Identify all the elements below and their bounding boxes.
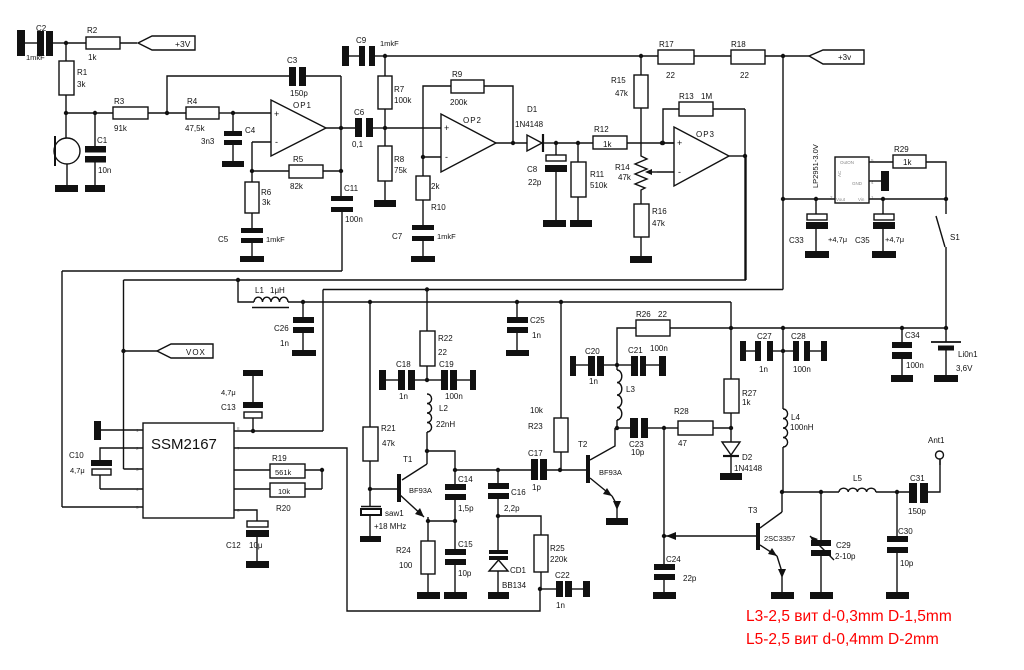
- wire to C3: [167, 76, 289, 113]
- capacitor C22 1n: [538, 571, 590, 610]
- svg-text:2-10p: 2-10p: [835, 552, 856, 561]
- coil winding note line 2: [746, 631, 939, 648]
- svg-text:L5: L5: [853, 474, 862, 483]
- svg-text:C14: C14: [458, 475, 473, 484]
- svg-text:1n: 1n: [399, 392, 408, 401]
- svg-text:T1: T1: [403, 455, 413, 464]
- svg-text:100n: 100n: [445, 392, 463, 401]
- varactor CD1 BB134: [488, 516, 527, 599]
- svg-text:L3-2,5 вит d-0,3mm D-1,5mm: L3-2,5 вит d-0,3mm D-1,5mm: [746, 608, 952, 625]
- inductor L3: [615, 365, 636, 430]
- svg-text:10μ: 10μ: [249, 541, 263, 550]
- capacitor C4 3n3: [201, 113, 256, 167]
- svg-text:22nH: 22nH: [436, 420, 455, 429]
- resistor R24 100: [396, 519, 440, 599]
- svg-text:47k: 47k: [652, 219, 666, 228]
- capacitor C9 1mkF: [342, 36, 399, 66]
- SSM pin4 wire: [100, 488, 143, 490]
- resistor R1 3k: [59, 43, 88, 113]
- svg-text:R23: R23: [528, 422, 543, 431]
- resistor R17 22: [641, 40, 731, 80]
- resistor R13 1M: [661, 92, 745, 145]
- svg-text:1n: 1n: [759, 365, 768, 374]
- svg-text:1mkF: 1mkF: [380, 39, 399, 48]
- wire oscillator output bus: [455, 469, 531, 471]
- capacitor C17 1p: [528, 449, 587, 492]
- svg-text:R17: R17: [659, 40, 674, 49]
- inductor L1 1uH: [238, 280, 731, 308]
- svg-text:R6: R6: [261, 188, 272, 197]
- resistor R23 10k: [528, 302, 568, 470]
- svg-text:C9: C9: [356, 36, 367, 45]
- svg-text:22: 22: [438, 348, 447, 357]
- wire VOX vertical: [123, 280, 125, 469]
- svg-text:VOX: VOX: [186, 348, 206, 357]
- svg-text:R5: R5: [293, 155, 304, 164]
- resistor R18 22: [731, 40, 809, 80]
- svg-text:22: 22: [658, 310, 667, 319]
- resistor R29 1k: [869, 145, 946, 199]
- resistor R19 561k: [234, 454, 324, 489]
- capacitor C24 22p: [653, 536, 697, 599]
- wire +3v vertical: [782, 56, 784, 290]
- svg-text:47k: 47k: [618, 173, 632, 182]
- capacitor C15 10p: [444, 521, 473, 599]
- svg-text:C4: C4: [245, 126, 256, 135]
- svg-text:2SC3357: 2SC3357: [764, 534, 795, 543]
- svg-text:510k: 510k: [590, 181, 608, 190]
- resistor R6 3k: [245, 171, 272, 228]
- svg-text:R10: R10: [431, 203, 446, 212]
- svg-text:R21: R21: [381, 424, 396, 433]
- svg-text:1,5p: 1,5p: [458, 504, 474, 513]
- capacitor C5 1mkF: [218, 228, 285, 262]
- resistor R28 47: [662, 407, 733, 448]
- svg-text:100n: 100n: [650, 344, 668, 353]
- svg-text:C10: C10: [69, 451, 84, 460]
- svg-text:R22: R22: [438, 334, 453, 343]
- svg-text:10k: 10k: [278, 487, 290, 496]
- switch S1: [936, 199, 960, 328]
- svg-text:22p: 22p: [528, 178, 542, 187]
- svg-text:C30: C30: [898, 527, 913, 536]
- svg-text:R24: R24: [396, 546, 411, 555]
- svg-text:OP2: OP2: [463, 116, 482, 125]
- svg-text:R9: R9: [452, 70, 463, 79]
- svg-text:R16: R16: [652, 207, 667, 216]
- resistor R20 10k: [234, 483, 322, 513]
- svg-text:47,5k: 47,5k: [185, 124, 206, 133]
- svg-text:C6: C6: [354, 108, 365, 117]
- svg-text:150p: 150p: [290, 89, 308, 98]
- node T3 collector junction: [780, 490, 784, 494]
- capacitor C2 1mkF: [25, 24, 66, 62]
- svg-text:220k: 220k: [550, 555, 568, 564]
- svg-text:1k: 1k: [903, 158, 912, 167]
- SSM pin5 wire: [62, 506, 143, 508]
- svg-text:10p: 10p: [631, 448, 645, 457]
- svg-text:R14: R14: [615, 163, 630, 172]
- svg-text:R20: R20: [276, 504, 291, 513]
- svg-text:200k: 200k: [450, 98, 468, 107]
- capacitor C30 10p: [886, 492, 914, 599]
- svg-text:R7: R7: [394, 85, 405, 94]
- node OP2 output junction: [496, 141, 527, 145]
- svg-text:C35: C35: [855, 236, 870, 245]
- svg-text:75k: 75k: [394, 166, 408, 175]
- wire battery rail junctions: [729, 326, 948, 330]
- wire C3 to OP1 output: [340, 76, 342, 128]
- op-amp OP2: [385, 114, 496, 172]
- resistor R7 100k: [378, 56, 412, 128]
- capacitor C33 4,7u: [789, 199, 847, 258]
- resistor R26 22: [617, 310, 946, 365]
- svg-text:22: 22: [740, 71, 749, 80]
- svg-text:R13: R13: [679, 92, 694, 101]
- capacitor C26 1n: [274, 302, 316, 356]
- svg-text:-: -: [445, 152, 448, 162]
- svg-text:1N4148: 1N4148: [515, 120, 544, 129]
- svg-text:T2: T2: [578, 440, 588, 449]
- svg-text:100: 100: [399, 561, 413, 570]
- svg-text:C11: C11: [344, 184, 359, 193]
- capacitor C23 10p: [617, 418, 664, 457]
- svg-text:S1: S1: [950, 233, 960, 242]
- resistor R15 47k: [611, 54, 648, 143]
- svg-text:1p: 1p: [532, 483, 541, 492]
- svg-text:Vin: Vin: [858, 197, 865, 202]
- svg-text:R29: R29: [894, 145, 909, 154]
- svg-text:T3: T3: [748, 506, 758, 515]
- svg-text:+3v: +3v: [838, 53, 851, 62]
- svg-text:R2: R2: [87, 26, 98, 35]
- node OP1 output junction: [326, 126, 355, 130]
- svg-text:Ant1: Ant1: [928, 436, 945, 445]
- resistor R3 91k: [66, 97, 167, 133]
- capacitor C21 100n: [617, 344, 668, 376]
- wire R28 node down to T3 base: [662, 428, 666, 538]
- diode D2 1N4148: [720, 428, 763, 480]
- svg-text:R27: R27: [742, 389, 757, 398]
- svg-text:3k: 3k: [262, 198, 271, 207]
- svg-text:10k: 10k: [530, 406, 544, 415]
- svg-text:BB134: BB134: [502, 581, 527, 590]
- svg-text:100n: 100n: [906, 361, 924, 370]
- svg-text:R12: R12: [594, 125, 609, 134]
- capacitor C34 100n: [891, 328, 924, 382]
- svg-text:Li0n1: Li0n1: [958, 350, 978, 359]
- svg-text:C34: C34: [905, 331, 920, 340]
- svg-text:10p: 10p: [458, 569, 472, 578]
- svg-text:R3: R3: [114, 97, 125, 106]
- svg-text:3n3: 3n3: [201, 137, 215, 146]
- svg-text:0,1: 0,1: [352, 140, 364, 149]
- svg-text:+4,7μ: +4,7μ: [885, 235, 904, 244]
- resistor R16 47k: [630, 204, 667, 263]
- svg-text:Vout: Vout: [836, 197, 846, 202]
- SSM pin7 wire to varactor loop: [234, 448, 540, 611]
- svg-text:R18: R18: [731, 40, 746, 49]
- svg-text:R11: R11: [590, 170, 605, 179]
- capacitor C28 100n: [783, 332, 827, 374]
- resistor R21 47k: [363, 302, 396, 489]
- wire OP1 inverting input: [250, 142, 254, 173]
- svg-text:C25: C25: [530, 316, 545, 325]
- node B junction: [64, 111, 97, 115]
- wire L1 bus junction dots: [301, 300, 563, 304]
- wire VOX bus: [124, 156, 747, 282]
- svg-text:2,2p: 2,2p: [504, 504, 520, 513]
- svg-text:C28: C28: [791, 332, 806, 341]
- wire OP3 output down to VOX bus: [744, 109, 746, 280]
- connector +3V: [138, 36, 195, 50]
- svg-text:4,7μ: 4,7μ: [221, 388, 236, 397]
- svg-text:L2: L2: [439, 404, 448, 413]
- svg-text:91k: 91k: [114, 124, 128, 133]
- svg-text:-: -: [275, 137, 278, 147]
- SSM pin2 wire: [100, 448, 143, 460]
- capacitor C35 4,7u: [855, 199, 904, 258]
- svg-text:1mkF: 1mkF: [26, 53, 45, 62]
- svg-text:100n: 100n: [345, 215, 363, 224]
- wire output row: [782, 490, 839, 494]
- svg-text:BF93A: BF93A: [599, 468, 622, 477]
- svg-text:4,7μ: 4,7μ: [70, 466, 85, 475]
- svg-text:R8: R8: [394, 155, 405, 164]
- capacitor gnd bar at regulator: [869, 171, 889, 191]
- resistor R25 220k: [498, 516, 568, 589]
- svg-text:C31: C31: [910, 474, 925, 483]
- capacitor C3 150p: [287, 56, 341, 98]
- wire C11 return bus: [62, 270, 342, 272]
- svg-text:C12: C12: [226, 541, 241, 550]
- resistor R27 1k: [724, 379, 757, 428]
- svg-text:LP2951-3.0V: LP2951-3.0V: [811, 144, 820, 188]
- node D junction: [231, 111, 235, 115]
- svg-text:1n: 1n: [589, 377, 598, 386]
- resistor R8 75k: [374, 128, 408, 207]
- wire +3v RF bus: [323, 287, 783, 291]
- svg-text:AC: AC: [837, 170, 842, 177]
- node T1 base junction: [368, 487, 397, 491]
- svg-text:R28: R28: [674, 407, 689, 416]
- regulator U2 LP2951-3.0V: [811, 144, 874, 203]
- svg-text:1k: 1k: [742, 398, 751, 407]
- svg-text:C15: C15: [458, 540, 473, 549]
- coil winding note line 1: [746, 608, 952, 625]
- svg-text:R4: R4: [187, 97, 198, 106]
- transistor T3 2SC3357: [664, 492, 795, 599]
- svg-text:22: 22: [666, 71, 675, 80]
- resistor R10 2k: [416, 176, 446, 225]
- svg-text:GND: GND: [852, 181, 863, 186]
- svg-text:OutON: OutON: [840, 160, 854, 165]
- svg-text:R26: R26: [636, 310, 651, 319]
- input terminal bar: [17, 30, 25, 56]
- svg-text:-: -: [678, 167, 681, 177]
- svg-text:100n: 100n: [793, 365, 811, 374]
- capacitor C27 1n row: [740, 328, 785, 374]
- svg-text:C21: C21: [628, 346, 643, 355]
- resistor R12 1k: [556, 125, 674, 149]
- svg-text:2k: 2k: [431, 182, 440, 191]
- svg-text:saw1: saw1: [385, 509, 404, 518]
- trimmer capacitor C29 2-10p: [810, 492, 856, 599]
- inductor L4 100nH: [783, 351, 814, 492]
- svg-text:1n: 1n: [532, 331, 541, 340]
- SSM pin3 wire: [124, 468, 144, 470]
- svg-text:C22: C22: [555, 571, 570, 580]
- capacitor C25 1n: [506, 302, 545, 356]
- resistor R9 200k: [421, 70, 513, 176]
- capacitor C1 10n: [85, 113, 111, 192]
- resistor R11 510k: [570, 141, 608, 227]
- svg-text:1n: 1n: [556, 601, 565, 610]
- svg-text:47k: 47k: [615, 89, 629, 98]
- svg-text:100k: 100k: [394, 96, 412, 105]
- svg-text:1k: 1k: [88, 53, 97, 62]
- svg-text:OP3: OP3: [696, 130, 715, 139]
- wire left vertical to SSM pin5: [61, 271, 63, 507]
- svg-text:C7: C7: [392, 232, 403, 241]
- svg-text:R25: R25: [550, 544, 565, 553]
- capacitor C14 1,5p: [445, 468, 474, 521]
- op-amp OP3: [657, 127, 729, 186]
- microphone MK1: [54, 113, 80, 192]
- node C junction: [165, 111, 169, 115]
- svg-text:C17: C17: [528, 449, 543, 458]
- svg-text:3k: 3k: [77, 80, 86, 89]
- svg-text:1n: 1n: [280, 339, 289, 348]
- svg-text:C20: C20: [585, 347, 600, 356]
- svg-text:C26: C26: [274, 324, 289, 333]
- capacitor C12 10u: [226, 510, 269, 568]
- svg-text:561k: 561k: [275, 468, 292, 477]
- transistor T1 BF93A: [397, 432, 455, 541]
- svg-text:C5: C5: [218, 235, 229, 244]
- svg-text:47: 47: [678, 439, 687, 448]
- svg-text:22p: 22p: [683, 574, 697, 583]
- capacitor C8 22p: [527, 141, 567, 227]
- svg-text:+18 MHz: +18 MHz: [374, 522, 406, 531]
- capacitor C13 4,7u: [221, 370, 263, 433]
- capacitor C18 1n row: [379, 360, 429, 401]
- svg-text:C33: C33: [789, 236, 804, 245]
- svg-text:1N4148: 1N4148: [734, 464, 763, 473]
- svg-text:150p: 150p: [908, 507, 926, 516]
- svg-text:1mkF: 1mkF: [437, 232, 456, 241]
- capacitor C11 100n: [331, 128, 363, 271]
- diode D1 1N4148: [515, 105, 556, 152]
- svg-text:+4,7μ: +4,7μ: [828, 235, 847, 244]
- svg-text:R1: R1: [77, 68, 88, 77]
- svg-text:C2: C2: [36, 24, 47, 33]
- svg-text:1M: 1M: [701, 92, 712, 101]
- svg-text:OP1: OP1: [293, 101, 312, 110]
- resistor R4 47,5k: [167, 97, 233, 133]
- svg-text:SSM2167: SSM2167: [151, 436, 217, 453]
- svg-text:10p: 10p: [900, 559, 914, 568]
- antenna Ant1: [928, 436, 945, 465]
- resistor R2 1k: [66, 26, 137, 62]
- resistor R22 22: [420, 290, 453, 381]
- svg-text:1mkF: 1mkF: [266, 235, 285, 244]
- svg-text:3,6V: 3,6V: [956, 364, 973, 373]
- wire emitter to divider: [428, 519, 457, 523]
- svg-text:L1: L1: [255, 286, 264, 295]
- svg-text:C13: C13: [221, 403, 236, 412]
- capacitor C6 0,1: [352, 108, 387, 149]
- wire bus to R27: [730, 302, 732, 379]
- svg-text:+3V: +3V: [175, 39, 191, 49]
- SSM pin8 wire to +3v: [234, 290, 323, 432]
- capacitor C10 4,7u: [69, 451, 112, 489]
- svg-text:82k: 82k: [290, 182, 304, 191]
- capacitor C19 100n: [427, 360, 476, 401]
- svg-text:C8: C8: [527, 165, 538, 174]
- svg-text:C3: C3: [287, 56, 298, 65]
- capacitor C31 150p: [908, 460, 940, 516]
- capacitor C16 2,2p: [488, 468, 526, 518]
- op-amp OP1: [233, 100, 326, 156]
- svg-text:C1: C1: [97, 136, 108, 145]
- svg-text:10n: 10n: [98, 166, 111, 175]
- SSM pin1 wire and terminal bar: [94, 421, 143, 440]
- svg-text:100nH: 100nH: [790, 423, 814, 432]
- transistor T2 BF93A: [578, 428, 628, 525]
- svg-text:C27: C27: [757, 332, 772, 341]
- connector +3v right: [809, 50, 864, 64]
- battery Li0n1 3,6V: [931, 328, 978, 382]
- svg-text:CD1: CD1: [510, 566, 527, 575]
- svg-text:C29: C29: [836, 541, 851, 550]
- svg-text:+: +: [274, 109, 279, 119]
- svg-text:1k: 1k: [603, 140, 612, 149]
- svg-text:R19: R19: [272, 454, 287, 463]
- svg-text:D1: D1: [527, 105, 538, 114]
- IC U1 SSM2167: [136, 423, 240, 518]
- node A junction: [64, 41, 68, 45]
- svg-text:+: +: [677, 138, 682, 148]
- svg-text:C18: C18: [396, 360, 411, 369]
- svg-text:R15: R15: [611, 76, 626, 85]
- wire regulator supply rail: [781, 197, 948, 201]
- svg-text:BF93A: BF93A: [409, 486, 432, 495]
- connector VOX: [121, 344, 213, 358]
- wire +3v top rail: [385, 55, 641, 57]
- svg-text:1μH: 1μH: [270, 286, 285, 295]
- potentiometer R14 47k: [615, 143, 657, 204]
- svg-text:L3: L3: [626, 385, 635, 394]
- svg-text:C24: C24: [666, 555, 681, 564]
- capacitor C20 1n row: [570, 347, 619, 386]
- svg-text:47k: 47k: [382, 439, 396, 448]
- svg-text:L5-2,5 вит d-0,4mm D-2mm: L5-2,5 вит d-0,4mm D-2mm: [746, 631, 939, 648]
- inductor L2 22nH: [427, 394, 455, 432]
- svg-text:C19: C19: [439, 360, 454, 369]
- resistor R5 82k: [252, 155, 343, 191]
- capacitor C7 1mkF: [392, 225, 456, 262]
- inductor L5: [839, 474, 909, 494]
- svg-text:+: +: [444, 123, 449, 133]
- svg-text:D2: D2: [742, 453, 753, 462]
- crystal saw1 +18MHz: [360, 489, 406, 542]
- svg-text:L4: L4: [791, 413, 800, 422]
- node OP3 output: [729, 154, 747, 158]
- svg-text:C16: C16: [511, 488, 526, 497]
